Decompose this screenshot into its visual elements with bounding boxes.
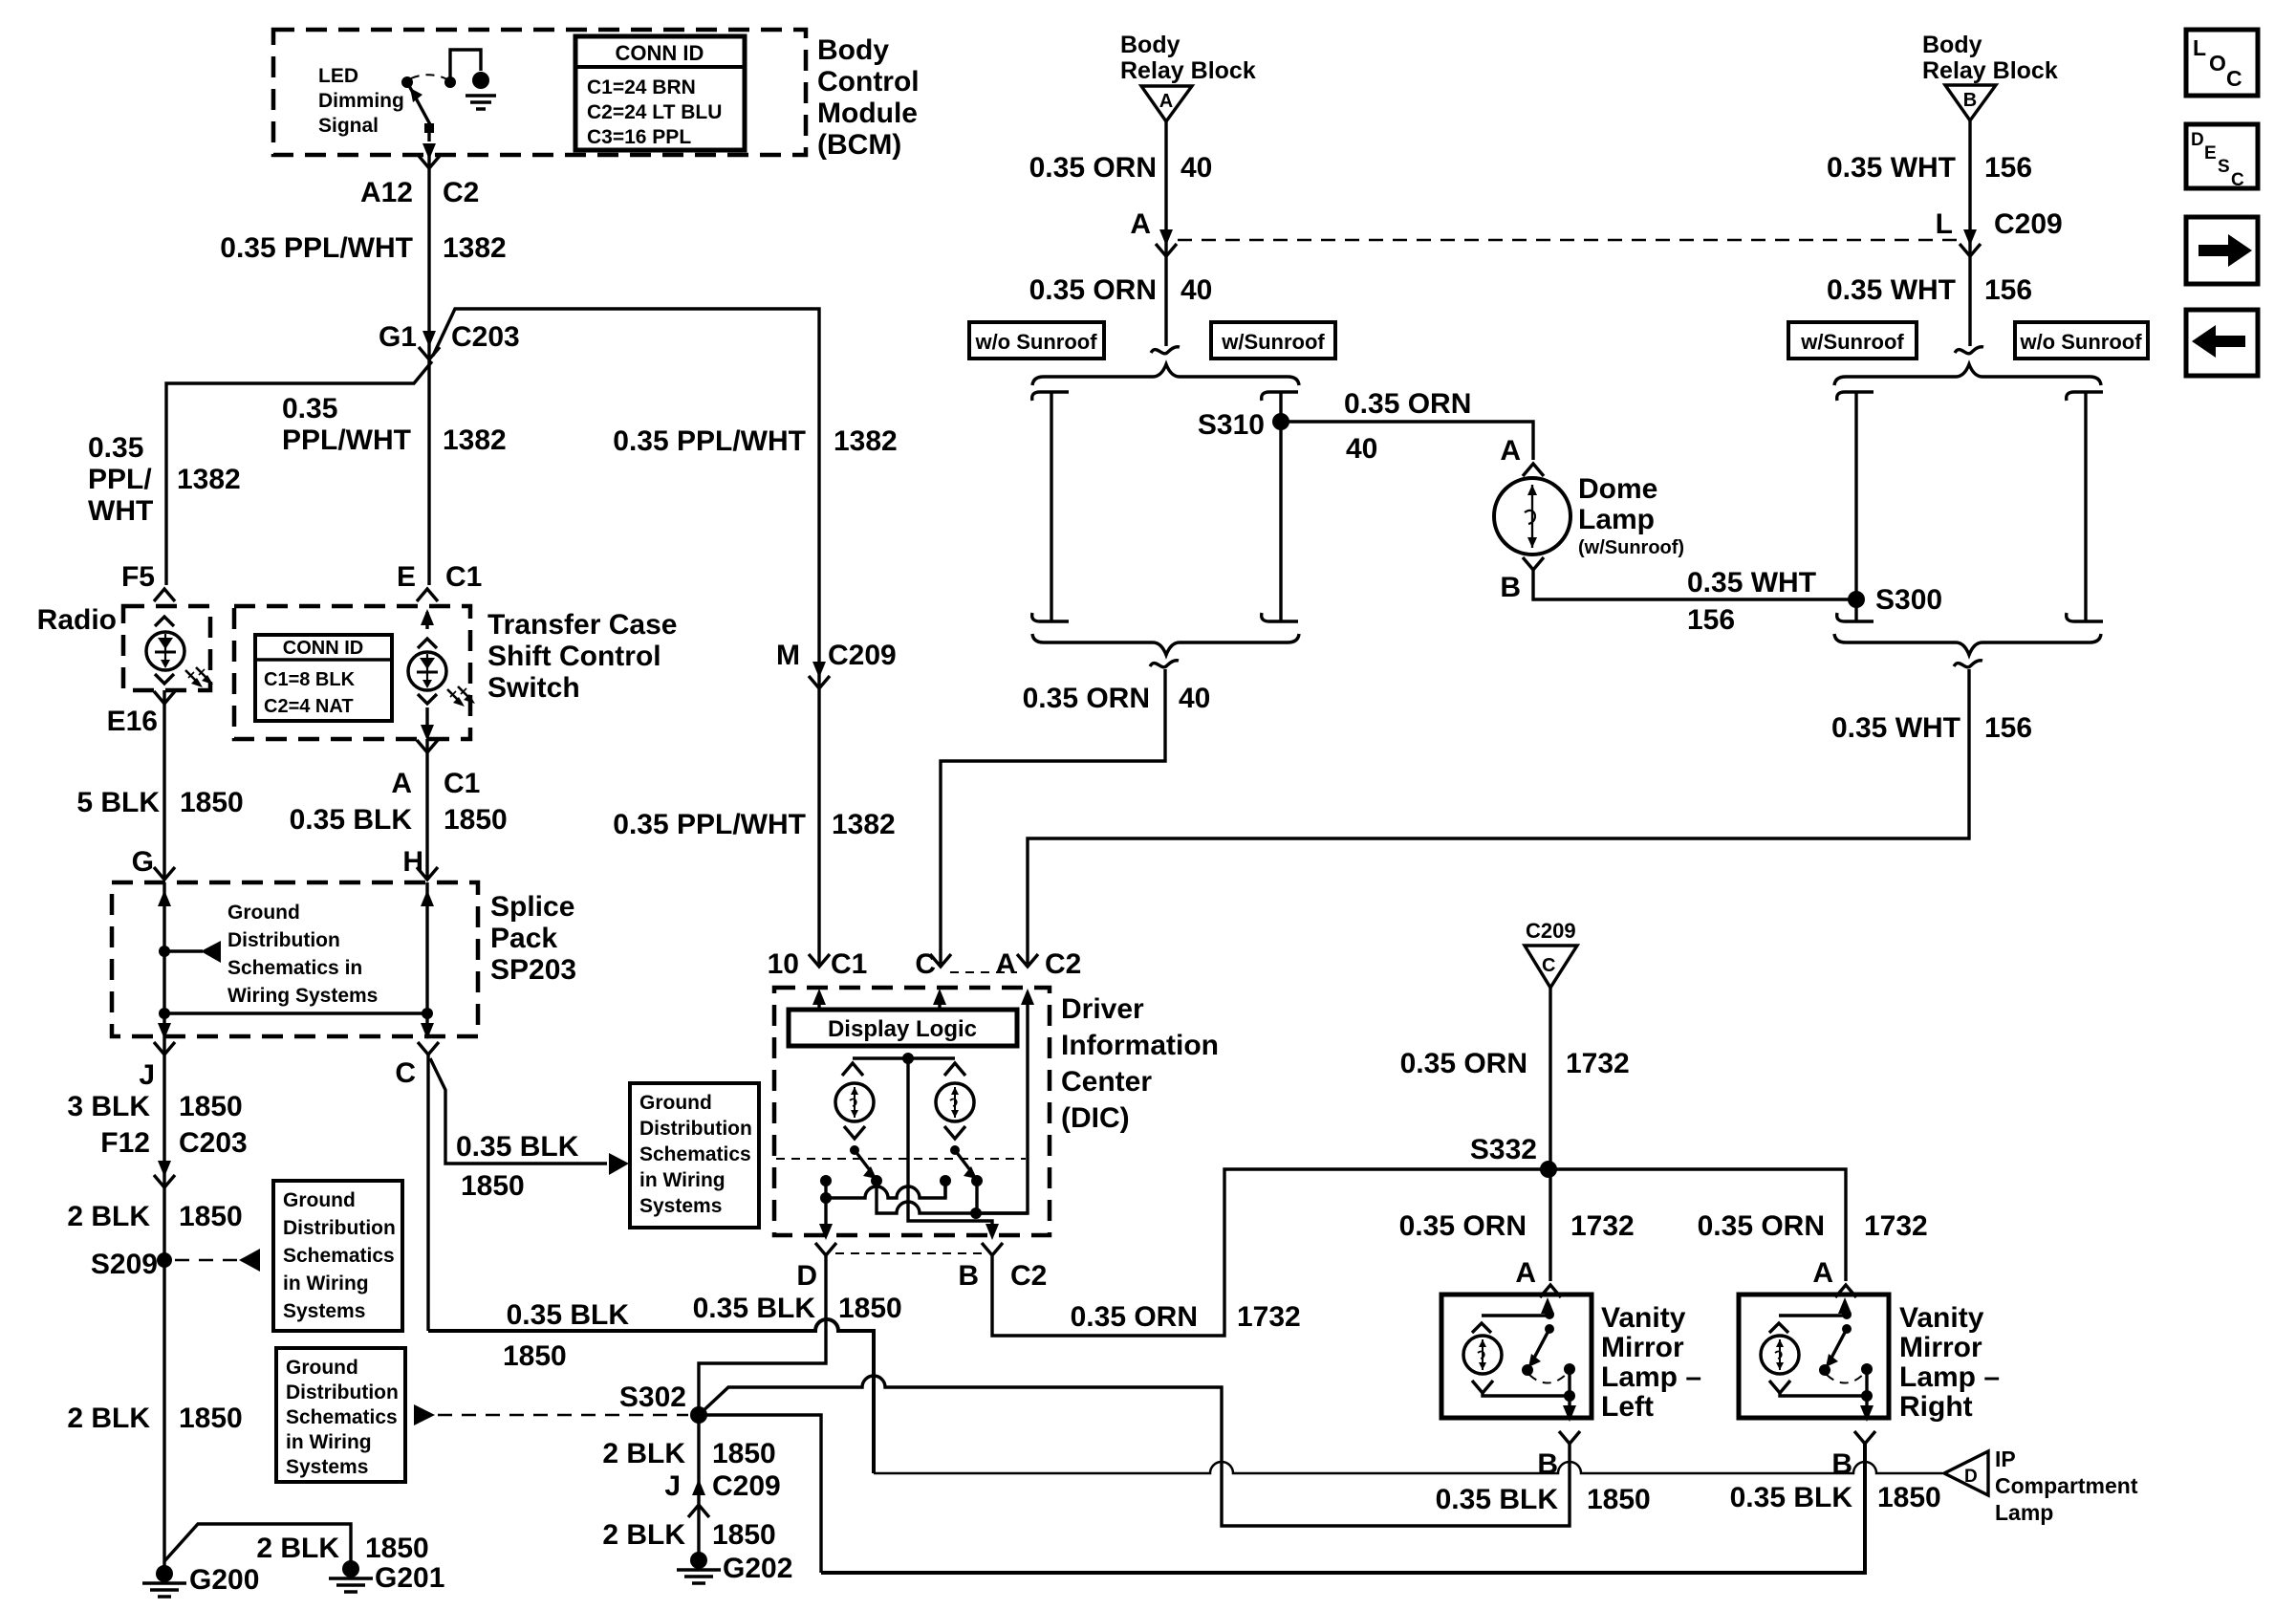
svg-text:C2: C2 bbox=[443, 177, 479, 208]
svg-text:Driver: Driver bbox=[1061, 993, 1144, 1025]
svg-text:0.35 ORN: 0.35 ORN bbox=[1029, 152, 1157, 184]
IP compartment lamp off-page triangle D bbox=[1944, 1447, 2138, 1525]
LED dimming switch pivot bbox=[401, 76, 413, 88]
svg-text:J: J bbox=[664, 1470, 681, 1502]
label 0.35 PPL/WHT 1382 on M wire lower bbox=[613, 809, 895, 840]
Splice Pack SP203 title bbox=[490, 891, 576, 986]
svg-text:w/o Sunroof: w/o Sunroof bbox=[2019, 330, 2142, 354]
svg-text:C1: C1 bbox=[444, 768, 480, 799]
svg-text:0.35: 0.35 bbox=[282, 393, 337, 424]
splice pack note text bbox=[227, 902, 378, 1007]
Splice Pack SP203 dashed box bbox=[112, 882, 478, 1036]
svg-text:Body: Body bbox=[1120, 32, 1180, 58]
svg-text:Switch: Switch bbox=[487, 672, 580, 704]
svg-text:F12: F12 bbox=[100, 1127, 150, 1159]
ground distribution note box 2 bbox=[276, 1348, 405, 1482]
svg-text:Center: Center bbox=[1061, 1066, 1152, 1098]
svg-text:Ground: Ground bbox=[286, 1357, 358, 1379]
label 2 BLK 1850 lower bbox=[67, 1403, 242, 1434]
Transfer Case Shift Control Switch dashed box bbox=[234, 606, 470, 739]
svg-text:1850: 1850 bbox=[179, 1403, 243, 1434]
svg-text:C1=24 BRN: C1=24 BRN bbox=[587, 76, 696, 98]
wire 3 BLK 1850 bbox=[67, 1036, 242, 1574]
wire 0.35 BLK 1850 from pin C bbox=[426, 1055, 429, 1331]
label 0.35 PPL/WHT 1382 radio branch bbox=[88, 432, 241, 527]
w/o Sunroof option box left bbox=[969, 322, 1104, 359]
transfer case title bbox=[487, 609, 677, 704]
pin C note leader bbox=[430, 1058, 629, 1202]
svg-text:C203: C203 bbox=[179, 1127, 248, 1159]
svg-text:1382: 1382 bbox=[834, 425, 898, 457]
svg-text:LED: LED bbox=[318, 65, 358, 87]
svg-text:E: E bbox=[2204, 143, 2217, 163]
display logic feed arrows bbox=[812, 989, 946, 1010]
connector transfer case pin A C1 bbox=[391, 740, 480, 799]
Radio dashed box bbox=[37, 604, 210, 690]
svg-text:40: 40 bbox=[1180, 152, 1212, 184]
wire 2 BLK 1850 S302 down bbox=[602, 1415, 775, 1560]
svg-text:1382: 1382 bbox=[443, 424, 507, 456]
vanity left feed dot bbox=[1545, 1310, 1554, 1319]
wire 0.35 WHT 156 from relay block B bbox=[1827, 120, 2032, 346]
svg-text:0.35 WHT: 0.35 WHT bbox=[1827, 274, 1956, 306]
svg-text:B: B bbox=[1500, 572, 1521, 603]
svg-text:156: 156 bbox=[1984, 152, 2032, 184]
option brace bottom right block bbox=[1834, 634, 2101, 655]
connector C2 pin A12 bbox=[360, 156, 479, 208]
wire from contact to ground stub bbox=[450, 50, 481, 80]
svg-text:E: E bbox=[397, 561, 416, 593]
splice pack pin H bbox=[402, 846, 438, 880]
svg-text:1382: 1382 bbox=[443, 232, 507, 264]
svg-text:Body: Body bbox=[817, 34, 889, 66]
splice tap dot bbox=[159, 946, 170, 957]
svg-text:C: C bbox=[915, 948, 936, 980]
vanity right bottom bus bbox=[1780, 1393, 1867, 1396]
option wire w/sunroof with S310 bbox=[1262, 392, 1298, 621]
svg-text:156: 156 bbox=[1984, 274, 2032, 306]
svg-text:C1: C1 bbox=[445, 561, 482, 593]
option brace top right block bbox=[1834, 364, 2101, 385]
svg-text:C209: C209 bbox=[828, 640, 897, 671]
forward arrow legend box bbox=[2186, 217, 2258, 284]
svg-text:CONN ID: CONN ID bbox=[616, 41, 704, 65]
vanity left bottom bus bbox=[1483, 1393, 1570, 1396]
svg-text:Schematics in: Schematics in bbox=[227, 957, 362, 979]
label 0.35 BLK 1850 pin D bbox=[693, 1293, 902, 1324]
wire break symbol bbox=[1954, 661, 1982, 667]
svg-text:40: 40 bbox=[1346, 433, 1377, 465]
C2 connector dashed tie top bbox=[950, 971, 1017, 973]
vanity left title bbox=[1601, 1302, 1701, 1423]
DIC ground bus to pin D bbox=[819, 1186, 945, 1240]
connector C209 dashed tie line bbox=[1178, 239, 1958, 242]
svg-text:G1: G1 bbox=[379, 321, 417, 353]
svg-text:Schematics: Schematics bbox=[286, 1406, 398, 1428]
DIC internal wire from pin A bbox=[976, 989, 1034, 1213]
connector C209 triangle C bbox=[1525, 919, 1577, 988]
svg-text:Shift Control: Shift Control bbox=[487, 641, 661, 672]
w/o Sunroof option box right bbox=[2015, 322, 2148, 359]
Vanity Mirror Lamp Left box bbox=[1441, 1295, 1592, 1422]
ground terminal dot bbox=[472, 72, 489, 89]
S302 note dashed leader bbox=[414, 1404, 688, 1425]
svg-text:in Wiring: in Wiring bbox=[286, 1431, 372, 1453]
svg-text:B: B bbox=[1831, 1448, 1852, 1480]
svg-text:1382: 1382 bbox=[832, 809, 896, 840]
svg-text:C: C bbox=[395, 1057, 416, 1089]
svg-text:S302: S302 bbox=[619, 1382, 686, 1413]
svg-text:Distribution: Distribution bbox=[639, 1118, 752, 1140]
vanity right top bus bbox=[1779, 1314, 1847, 1316]
svg-text:Ground: Ground bbox=[639, 1092, 712, 1114]
wire branch to radio F5 bbox=[166, 361, 432, 585]
back arrow legend box bbox=[2186, 310, 2258, 376]
svg-text:1732: 1732 bbox=[1864, 1210, 1928, 1242]
Display Logic box bbox=[789, 1010, 1017, 1046]
label 0.35 ORN 40 below C209 bbox=[1029, 274, 1213, 306]
svg-text:40: 40 bbox=[1180, 274, 1212, 306]
svg-text:0.35 ORN: 0.35 ORN bbox=[1071, 1301, 1198, 1333]
svg-text:Signal: Signal bbox=[318, 115, 379, 137]
svg-text:C3=16 PPL: C3=16 PPL bbox=[587, 126, 691, 148]
svg-text:L: L bbox=[1936, 208, 1953, 240]
svg-text:Pack: Pack bbox=[490, 923, 557, 954]
DIC lamp feed dot bbox=[902, 1053, 914, 1064]
label 0.35 ORN 1732 left vanity bbox=[1399, 1210, 1635, 1242]
ground G200 bbox=[142, 1564, 259, 1597]
connector C209 pin A bbox=[1130, 208, 1177, 256]
svg-text:S310: S310 bbox=[1198, 409, 1265, 441]
wire blade to BCM pin bbox=[422, 133, 436, 160]
svg-text:Schematics: Schematics bbox=[283, 1245, 395, 1267]
vanity right switch throw contact bbox=[1827, 1373, 1865, 1383]
svg-text:w/Sunroof: w/Sunroof bbox=[1800, 330, 1904, 354]
svg-text:D: D bbox=[796, 1260, 817, 1292]
wire 0.35 BLK 1850 to splice pack bbox=[290, 739, 508, 878]
svg-text:1850: 1850 bbox=[461, 1170, 525, 1202]
svg-text:Lamp: Lamp bbox=[1578, 504, 1655, 535]
svg-text:Mirror: Mirror bbox=[1899, 1332, 1982, 1363]
Body Relay Block B title bbox=[1922, 32, 2058, 84]
svg-text:0.35 ORN: 0.35 ORN bbox=[1344, 388, 1471, 420]
svg-text:A: A bbox=[1500, 435, 1521, 467]
switch blade bbox=[407, 82, 432, 128]
svg-text:Display Logic: Display Logic bbox=[828, 1016, 977, 1042]
svg-text:1850: 1850 bbox=[179, 1091, 243, 1122]
svg-text:Information: Information bbox=[1061, 1030, 1219, 1061]
vanity right ground dot and exit bbox=[1861, 1390, 1873, 1402]
svg-text:0.35 BLK: 0.35 BLK bbox=[456, 1131, 579, 1163]
Body Control Module (BCM) title bbox=[817, 34, 920, 161]
wire S332 to right vanity lamp bbox=[1549, 1169, 1846, 1281]
svg-text:0.35 BLK: 0.35 BLK bbox=[1436, 1484, 1559, 1515]
wire branch to DIC via M C209 bbox=[433, 309, 819, 964]
transfer case illumination bulb bbox=[408, 609, 475, 741]
svg-text:C: C bbox=[2226, 66, 2242, 91]
S209 note dashed leader bbox=[175, 1249, 260, 1272]
svg-text:SP203: SP203 bbox=[490, 954, 576, 986]
svg-text:G201: G201 bbox=[375, 1562, 444, 1594]
label 0.35 PPL/WHT 1382 below C203 bbox=[282, 393, 507, 456]
svg-text:Lamp –: Lamp – bbox=[1601, 1361, 1701, 1393]
connector C203 pin G1 bbox=[379, 321, 520, 359]
svg-text:1850: 1850 bbox=[503, 1340, 567, 1372]
DIC right fixed contact bbox=[940, 1175, 951, 1198]
option wire w/o sunroof right bbox=[2067, 392, 2103, 621]
svg-text:CONN ID: CONN ID bbox=[283, 638, 363, 659]
svg-text:C209: C209 bbox=[1994, 208, 2063, 240]
svg-text:Vanity: Vanity bbox=[1899, 1302, 1984, 1334]
svg-text:2 BLK: 2 BLK bbox=[602, 1519, 685, 1551]
dome lamp pin A bbox=[1500, 435, 1544, 476]
ground G202 bbox=[677, 1552, 792, 1584]
svg-text:PPL/: PPL/ bbox=[88, 464, 152, 495]
CONN ID table transfer case bbox=[255, 635, 392, 721]
dome lamp pin B bbox=[1500, 557, 1544, 603]
CONN ID table bbox=[575, 36, 745, 150]
svg-text:3 BLK: 3 BLK bbox=[67, 1091, 150, 1122]
wire 0.35 ORN 40 from relay block A bbox=[1029, 121, 1213, 346]
switch dashed arc bbox=[411, 75, 447, 79]
svg-text:Lamp: Lamp bbox=[1995, 1500, 2053, 1525]
splice pack note leader arrow bbox=[164, 941, 221, 963]
wire break symbol bbox=[1955, 347, 1983, 354]
svg-text:Systems: Systems bbox=[639, 1195, 722, 1217]
svg-text:C203: C203 bbox=[451, 321, 520, 353]
ground distribution note box 1 bbox=[273, 1181, 402, 1331]
DIC switched bus bbox=[877, 1181, 1028, 1219]
vanity right pin B bbox=[1831, 1431, 1875, 1480]
svg-text:C2: C2 bbox=[1045, 948, 1081, 980]
svg-text:A: A bbox=[1130, 208, 1151, 240]
svg-text:0.35 BLK: 0.35 BLK bbox=[507, 1299, 630, 1331]
svg-text:1732: 1732 bbox=[1566, 1048, 1630, 1079]
label 0.35 ORN 1732 right vanity bbox=[1698, 1210, 1928, 1242]
splice S209 bbox=[91, 1249, 172, 1280]
svg-text:Distribution: Distribution bbox=[227, 929, 340, 951]
svg-text:Schematics: Schematics bbox=[639, 1143, 751, 1165]
svg-text:1850: 1850 bbox=[712, 1438, 776, 1469]
svg-text:2 BLK: 2 BLK bbox=[602, 1438, 685, 1469]
vanity right switch bbox=[1842, 1324, 1852, 1334]
vanity left pin A bbox=[1515, 1257, 1561, 1297]
splice pack left wire bbox=[158, 882, 171, 1036]
svg-text:S209: S209 bbox=[91, 1249, 158, 1280]
wire 5 BLK 1850 bbox=[76, 690, 243, 878]
label 0.35 PPL/WHT 1382 on M wire upper bbox=[613, 425, 897, 457]
Body Control Module (BCM) dashed box bbox=[273, 30, 806, 155]
svg-text:WHT: WHT bbox=[88, 495, 153, 527]
wire 0.35 ORN 1732 from C209 bbox=[1400, 988, 1630, 1169]
connector radio pin F5 bbox=[121, 561, 175, 601]
svg-text:B: B bbox=[1537, 1448, 1558, 1480]
svg-text:L: L bbox=[2193, 35, 2206, 60]
DIC pin D bbox=[796, 1243, 836, 1292]
svg-text:Relay Block: Relay Block bbox=[1922, 57, 2058, 84]
splice S302 bbox=[619, 1382, 707, 1424]
svg-text:40: 40 bbox=[1179, 683, 1210, 714]
svg-text:D: D bbox=[1964, 1467, 1978, 1487]
svg-text:Mirror: Mirror bbox=[1601, 1332, 1684, 1363]
DIC pin B C2 bbox=[958, 1243, 1047, 1292]
svg-text:10: 10 bbox=[768, 948, 799, 980]
DIC right switch bbox=[950, 1145, 983, 1186]
svg-text:5 BLK: 5 BLK bbox=[76, 787, 160, 818]
wire branch to G201 bbox=[164, 1524, 429, 1564]
svg-text:M: M bbox=[776, 640, 800, 671]
DIC left fixed contact bbox=[820, 1175, 832, 1198]
svg-text:A: A bbox=[391, 768, 412, 799]
svg-text:G: G bbox=[132, 846, 154, 878]
svg-text:A: A bbox=[1812, 1257, 1833, 1289]
svg-text:0.35 WHT: 0.35 WHT bbox=[1687, 567, 1816, 598]
svg-text:(DIC): (DIC) bbox=[1061, 1102, 1130, 1134]
svg-text:S: S bbox=[2218, 157, 2230, 177]
svg-text:w/o Sunroof: w/o Sunroof bbox=[974, 330, 1097, 354]
DIC left switch bbox=[850, 1145, 882, 1186]
svg-text:0.35 ORN: 0.35 ORN bbox=[1698, 1210, 1825, 1242]
connector radio pin E16 bbox=[107, 691, 175, 737]
svg-text:S332: S332 bbox=[1470, 1134, 1537, 1165]
svg-text:w/Sunroof: w/Sunroof bbox=[1221, 330, 1325, 354]
svg-text:1382: 1382 bbox=[177, 464, 241, 495]
label 0.35 PPL/WHT 1382 bbox=[220, 232, 506, 264]
svg-text:C2=4 NAT: C2=4 NAT bbox=[264, 696, 354, 717]
option brace top left block bbox=[1032, 364, 1299, 385]
svg-text:0.35 WHT: 0.35 WHT bbox=[1827, 152, 1956, 184]
w/Sunroof option box right bbox=[1788, 322, 1917, 359]
wire S332 to left vanity lamp bbox=[1549, 1169, 1551, 1281]
DIC pin A C2 bbox=[995, 948, 1081, 980]
svg-text:0.35 ORN: 0.35 ORN bbox=[1023, 683, 1150, 714]
DIC switch link dashed line bbox=[776, 1158, 1026, 1160]
svg-text:0.35 PPL/WHT: 0.35 PPL/WHT bbox=[613, 809, 806, 840]
svg-text:Relay Block: Relay Block bbox=[1120, 57, 1256, 84]
Body Relay Block A title bbox=[1120, 32, 1256, 84]
svg-text:0.35 PPL/WHT: 0.35 PPL/WHT bbox=[613, 425, 806, 457]
svg-text:C2: C2 bbox=[1010, 1260, 1047, 1292]
wire break symbol bbox=[1150, 661, 1179, 667]
svg-text:Ground: Ground bbox=[227, 902, 300, 924]
svg-text:Dimming: Dimming bbox=[318, 90, 404, 112]
svg-text:Control: Control bbox=[817, 66, 920, 98]
option wire w/o sunroof left bbox=[1032, 392, 1069, 621]
LOC legend box bbox=[2186, 30, 2258, 96]
svg-text:156: 156 bbox=[1984, 712, 2032, 744]
vanity right pin A bbox=[1812, 1257, 1856, 1297]
connector C203 pin F12 bbox=[100, 1127, 247, 1187]
svg-text:J: J bbox=[139, 1059, 155, 1091]
Vanity Mirror Lamp Right box bbox=[1739, 1295, 1889, 1422]
DIC title bbox=[1061, 993, 1219, 1134]
vanity left feed arrow bbox=[1546, 1308, 1549, 1316]
splice pack pin J bbox=[139, 1042, 175, 1091]
wire 0.35 ORN 40 to DIC pin C bbox=[941, 669, 1210, 964]
BCM label: LED Dimming Signal bbox=[318, 65, 404, 137]
vanity left switch bbox=[1545, 1324, 1554, 1334]
svg-text:A12: A12 bbox=[360, 177, 413, 208]
svg-text:C: C bbox=[1542, 955, 1555, 976]
svg-text:Dome: Dome bbox=[1578, 473, 1657, 505]
ground G201 bbox=[329, 1560, 444, 1594]
Body Relay Block B triangle bbox=[1945, 85, 1996, 120]
svg-text:Compartment: Compartment bbox=[1995, 1473, 2138, 1498]
svg-text:B: B bbox=[1963, 90, 1977, 111]
svg-text:0.35 ORN: 0.35 ORN bbox=[1029, 274, 1157, 306]
wire 0.35 WHT 156 dome to S300 bbox=[1533, 567, 1856, 636]
ground distribution note box 3 bbox=[630, 1083, 759, 1228]
svg-text:Transfer Case: Transfer Case bbox=[487, 609, 677, 641]
svg-text:Wiring Systems: Wiring Systems bbox=[227, 985, 378, 1007]
vanity left pin B bbox=[1537, 1431, 1580, 1480]
label 2 BLK 1850 bbox=[67, 1201, 242, 1232]
connector transfer case pin E C1 bbox=[397, 561, 482, 601]
DIC left bulb bbox=[835, 1063, 874, 1139]
svg-text:2 BLK: 2 BLK bbox=[67, 1403, 150, 1434]
svg-text:C2=24 LT BLU: C2=24 LT BLU bbox=[587, 101, 722, 123]
wire 0.35 BLK 1850 pin C to IP lamp bbox=[428, 1299, 874, 1473]
vanity left ground dot and exit bbox=[1564, 1390, 1575, 1402]
vanity right bulb bbox=[1769, 1323, 1788, 1333]
label 0.35 WHT 156 below C209 bbox=[1827, 274, 2032, 306]
wire S302 to left vanity lamp ground bbox=[699, 1376, 1570, 1526]
svg-text:Distribution: Distribution bbox=[283, 1217, 396, 1239]
radio illumination bulb bbox=[146, 617, 213, 687]
svg-text:Module: Module bbox=[817, 98, 918, 129]
svg-text:Left: Left bbox=[1601, 1391, 1654, 1423]
svg-text:0.35 BLK: 0.35 BLK bbox=[290, 804, 413, 836]
svg-text:C209: C209 bbox=[1526, 919, 1576, 943]
svg-text:1850: 1850 bbox=[838, 1293, 902, 1324]
C2 connector dashed tie bottom bbox=[835, 1252, 983, 1254]
svg-text:G202: G202 bbox=[723, 1553, 792, 1584]
splice S310 bbox=[1198, 409, 1289, 441]
splice pack exit arrows bbox=[158, 1023, 434, 1039]
svg-text:PPL/WHT: PPL/WHT bbox=[282, 424, 411, 456]
svg-text:C1: C1 bbox=[831, 948, 867, 980]
splice bus junction dots bbox=[159, 1008, 433, 1019]
svg-text:2 BLK: 2 BLK bbox=[256, 1533, 339, 1564]
svg-text:1850: 1850 bbox=[365, 1533, 429, 1564]
svg-text:Lamp –: Lamp – bbox=[1899, 1361, 2000, 1393]
connector C209 pin M bbox=[776, 640, 897, 688]
Body Relay Block A triangle bbox=[1141, 86, 1192, 121]
svg-text:0.35: 0.35 bbox=[88, 432, 143, 464]
svg-text:1850: 1850 bbox=[1587, 1484, 1651, 1515]
wire break symbol bbox=[1151, 347, 1180, 354]
svg-text:(BCM): (BCM) bbox=[817, 129, 901, 161]
DIC lamp feed bus bbox=[853, 1056, 955, 1059]
wire 1382 from BCM pin A12 bbox=[427, 155, 430, 585]
svg-text:Distribution: Distribution bbox=[286, 1382, 399, 1403]
svg-text:C1=8 BLK: C1=8 BLK bbox=[264, 669, 356, 690]
svg-text:Systems: Systems bbox=[283, 1300, 365, 1322]
svg-text:Systems: Systems bbox=[286, 1456, 368, 1478]
svg-text:1732: 1732 bbox=[1237, 1301, 1301, 1333]
label 0.35 BLK 1850 right vanity ground bbox=[1730, 1482, 1941, 1513]
svg-text:Vanity: Vanity bbox=[1601, 1302, 1686, 1334]
svg-text:1850: 1850 bbox=[712, 1519, 776, 1551]
svg-text:S300: S300 bbox=[1875, 584, 1942, 616]
svg-text:0.35 ORN: 0.35 ORN bbox=[1400, 1048, 1527, 1079]
DESC legend box bbox=[2186, 124, 2258, 190]
vanity right feed arrow bbox=[1843, 1308, 1846, 1316]
svg-text:2 BLK: 2 BLK bbox=[67, 1201, 150, 1232]
svg-text:C: C bbox=[2231, 170, 2244, 190]
svg-text:F5: F5 bbox=[121, 561, 155, 593]
w/Sunroof option box left bbox=[1211, 322, 1335, 359]
